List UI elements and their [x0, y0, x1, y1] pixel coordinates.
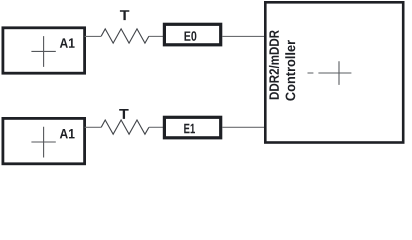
label DDR2/mDDR (rotated)	[269, 30, 279, 99]
label E0	[184, 31, 196, 41]
crosshair marker (top A1)	[31, 36, 55, 67]
buffer cell A1 (bottom) box	[3, 118, 85, 163]
resistor T (top) zigzag	[101, 29, 149, 43]
wire resistor to E0	[149, 35, 163, 37]
DDR2/mDDR Controller box	[265, 2, 403, 142]
wire A1 to resistor (top)	[85, 35, 102, 37]
crosshair marker (bottom A1)	[31, 127, 55, 158]
label T (bottom)	[119, 109, 128, 119]
label A1 (top)	[60, 38, 75, 47]
crosshair marker (controller) with dash	[308, 61, 352, 85]
driver cell E0 box	[164, 24, 220, 45]
label Controller (rotated)	[285, 40, 295, 100]
label E1	[184, 124, 195, 133]
wire E1 to controller	[222, 126, 265, 128]
driver cell E1 box	[164, 117, 220, 138]
label T (top)	[120, 10, 129, 20]
label A1 (bottom)	[60, 129, 75, 138]
wire resistor to E1	[149, 126, 163, 128]
wire A1 to resistor (bottom)	[85, 126, 102, 128]
wire E0 to controller	[222, 35, 265, 37]
resistor T (bottom) zigzag	[101, 120, 149, 134]
buffer cell A1 (top) box	[3, 28, 85, 73]
